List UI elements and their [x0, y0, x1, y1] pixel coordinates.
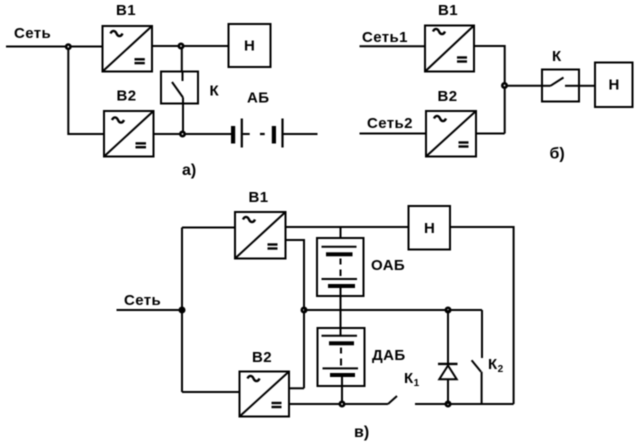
rectifier B2 (a)	[104, 88, 154, 157]
svg-text:К: К	[552, 48, 562, 65]
rectifier B1 (v)	[235, 189, 286, 259]
svg-text:В1: В1	[249, 189, 269, 206]
wire B1 out to bus	[474, 46, 505, 134]
node bus junction b	[502, 83, 506, 87]
node diode bottom junction	[446, 402, 450, 406]
wire bottom rail left	[289, 403, 388, 405]
svg-text:Сеть: Сеть	[124, 292, 161, 309]
wire drop to B2	[68, 49, 104, 135]
wire mains v	[117, 309, 183, 311]
wire top rail to H	[286, 226, 409, 228]
rectifier B2 (b)	[426, 88, 476, 157]
node mains junction v	[180, 308, 184, 312]
load H (v)	[409, 206, 451, 250]
wire battery right	[284, 133, 318, 135]
svg-text:Н: Н	[609, 77, 620, 94]
svg-text:б): б)	[550, 146, 565, 163]
node mains junction a	[66, 45, 70, 49]
wire B2 upper output	[289, 387, 304, 389]
svg-text:Н: Н	[244, 38, 255, 55]
svg-text:Сеть: Сеть	[14, 25, 51, 42]
svg-text:В1: В1	[438, 2, 458, 19]
switch K2	[472, 310, 482, 404]
rectifier B1 (b)	[425, 2, 474, 72]
node DAB bottom junction	[340, 402, 344, 406]
svg-text:Сеть1: Сеть1	[362, 29, 408, 46]
wire bus to K	[507, 85, 542, 87]
wire bottom rail right	[415, 403, 514, 405]
node middle rail left junction	[302, 308, 306, 312]
diode VD	[438, 310, 458, 404]
node diode top junction	[446, 308, 450, 312]
wire bottom rail a	[154, 133, 232, 135]
wire left vertical v	[181, 228, 183, 393]
switch K1 blade	[388, 396, 397, 404]
load H (a)	[229, 24, 271, 67]
switch K (a)	[161, 72, 220, 135]
wire B2 input v	[182, 391, 240, 393]
svg-text:АБ: АБ	[247, 90, 269, 107]
rectifier B1 (a)	[103, 2, 153, 72]
svg-text:Сеть2: Сеть2	[367, 115, 413, 132]
svg-text:ОАБ: ОАБ	[371, 257, 405, 274]
wire B1 to H	[152, 45, 229, 47]
svg-text:В2: В2	[117, 88, 137, 105]
svg-text:В2: В2	[438, 88, 458, 105]
wire to switch K top	[181, 48, 183, 72]
load H (b)	[595, 63, 633, 108]
switch K (b)	[542, 48, 579, 102]
wire B1 input v	[182, 227, 235, 229]
svg-text:ДАБ: ДАБ	[372, 347, 406, 364]
svg-text:а): а)	[182, 162, 196, 179]
wire B1 second output	[286, 240, 305, 388]
wire B2 out to bus	[476, 133, 505, 135]
battery AB	[231, 90, 283, 148]
node B1 output junction	[179, 44, 183, 48]
rectifier B2 (v)	[240, 349, 290, 417]
svg-text:Н: Н	[424, 220, 435, 237]
wire H to right bus	[450, 227, 514, 404]
wire middle rail	[304, 309, 482, 311]
wire mains1	[360, 45, 426, 47]
wire mains2	[360, 133, 427, 135]
battery box DAB	[318, 328, 406, 404]
svg-text:В1: В1	[116, 2, 136, 19]
node bottom junction a	[180, 132, 184, 136]
svg-text:В2: В2	[252, 349, 272, 366]
wire mains a	[6, 46, 103, 48]
battery box OAB	[317, 227, 405, 336]
svg-text:К: К	[210, 83, 220, 100]
wire K to H	[579, 85, 595, 87]
svg-text:в): в)	[354, 424, 369, 441]
